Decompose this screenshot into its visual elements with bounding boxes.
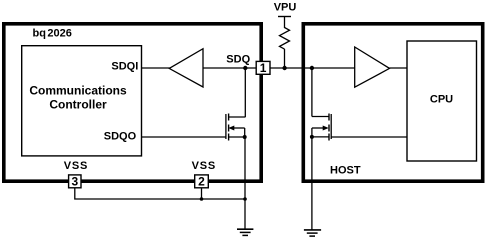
wire Q1 drain to SDQ bbox=[244, 68, 246, 117]
svg-text:3: 3 bbox=[71, 175, 78, 189]
VPU terminal bbox=[278, 16, 291, 18]
buffer U2 (host receive) bbox=[355, 47, 390, 87]
wire Q2 source to ground bbox=[311, 137, 313, 230]
svg-text:SDQO: SDQO bbox=[104, 131, 137, 143]
svg-text:VSS: VSS bbox=[192, 160, 216, 172]
ground (host side) bbox=[304, 230, 321, 236]
svg-text:VPU: VPU bbox=[274, 1, 297, 13]
transistor Q2 (host open-drain driver) bbox=[310, 114, 331, 141]
svg-text:Controller: Controller bbox=[49, 98, 107, 112]
wire Q1 source to ground bbox=[244, 137, 246, 230]
pull-up resistor bbox=[280, 28, 290, 50]
svg-text:HOST: HOST bbox=[330, 165, 361, 177]
pin 2 (VSS) bbox=[195, 175, 209, 188]
wire pin 3 to VSS bus bbox=[75, 188, 245, 199]
ground (bq2026 side) bbox=[237, 229, 253, 235]
svg-text:SDQI: SDQI bbox=[111, 61, 138, 73]
svg-text:Communications: Communications bbox=[29, 84, 127, 98]
svg-text:2026: 2026 bbox=[47, 27, 71, 39]
wire SDQ (buffer to pin 1) bbox=[203, 67, 257, 69]
transistor Q1 (bq2026 open-drain driver) bbox=[226, 114, 247, 141]
wire VPU to resistor bbox=[284, 17, 286, 29]
wire pin 2 to VSS bus bbox=[201, 188, 203, 199]
HOST block outline bbox=[303, 24, 482, 181]
Communications Controller block bbox=[22, 46, 142, 156]
junction: VSS bus to ground wire bbox=[243, 197, 247, 201]
svg-text:CPU: CPU bbox=[430, 94, 453, 106]
wire SDQI (buffer output to controller) bbox=[142, 67, 171, 69]
svg-text:2: 2 bbox=[198, 175, 205, 189]
svg-text:bq: bq bbox=[33, 27, 46, 39]
pin 1 (SDQ) bbox=[256, 61, 270, 74]
svg-text:1: 1 bbox=[260, 61, 267, 75]
junction: resistor on SDQ bbox=[282, 66, 286, 70]
junction: Q1 drain on SDQ bbox=[243, 66, 247, 70]
pin 3 (VSS) bbox=[69, 175, 81, 188]
wire host buffer to CPU bbox=[390, 67, 408, 69]
svg-text:VSS: VSS bbox=[64, 160, 88, 172]
CPU block bbox=[407, 41, 477, 161]
wire resistor to SDQ line bbox=[284, 49, 286, 68]
wire SDQO (controller to Q1 gate) bbox=[142, 136, 226, 138]
junction: Q2 drain on SDQ bbox=[310, 66, 314, 70]
wire SDQ (pin 1 to host buffer) bbox=[269, 67, 356, 69]
buffer U1 (receive, bq2026) bbox=[169, 49, 203, 87]
junction: pin 2 on VSS bus bbox=[200, 197, 204, 201]
wire Q2 drain to SDQ bbox=[311, 68, 313, 117]
bq2026 device outline bbox=[4, 24, 261, 181]
svg-text:SDQ: SDQ bbox=[226, 54, 250, 66]
wire Q2 gate to CPU bbox=[331, 136, 407, 138]
